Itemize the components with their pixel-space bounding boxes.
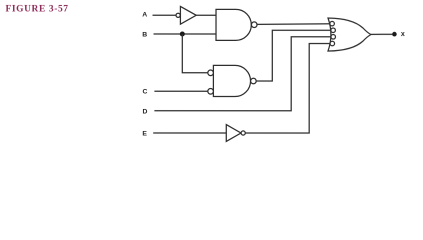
svg-text:FIGURE 3-57: FIGURE 3-57 bbox=[6, 4, 69, 14]
wire G1 output to NAND G2 bbox=[196, 14, 216, 16]
svg-text:x: x bbox=[401, 31, 405, 38]
svg-text:C: C bbox=[143, 89, 148, 96]
inverter G4 on E (output bubble) bbox=[226, 125, 245, 142]
wire A input bbox=[153, 14, 177, 16]
svg-text:B: B bbox=[142, 31, 147, 38]
wire B branch down to G3 bbox=[182, 34, 208, 73]
wire G5 output to node x bbox=[371, 33, 392, 35]
or gate G5 with bubbled inputs bbox=[328, 18, 371, 51]
wire C input bbox=[154, 90, 207, 92]
svg-text:E: E bbox=[142, 130, 147, 137]
wire E input bbox=[153, 132, 226, 134]
wire B input bbox=[154, 33, 216, 35]
svg-text:D: D bbox=[143, 108, 148, 115]
wire D to OR input 3 bbox=[154, 37, 330, 111]
nand gate G3 with bubbled inputs bbox=[208, 65, 256, 96]
nand gate G2 bbox=[216, 9, 257, 40]
wire G3 output to OR input 2 bbox=[256, 30, 331, 81]
node junction on B bbox=[180, 31, 185, 36]
inverter G1 on A (input bubble) bbox=[176, 6, 196, 24]
wire G2 output to OR input 1 bbox=[257, 23, 330, 26]
node x dot bbox=[392, 32, 397, 37]
wire G4 output to OR input 4 bbox=[245, 44, 330, 134]
svg-text:A: A bbox=[142, 12, 147, 19]
